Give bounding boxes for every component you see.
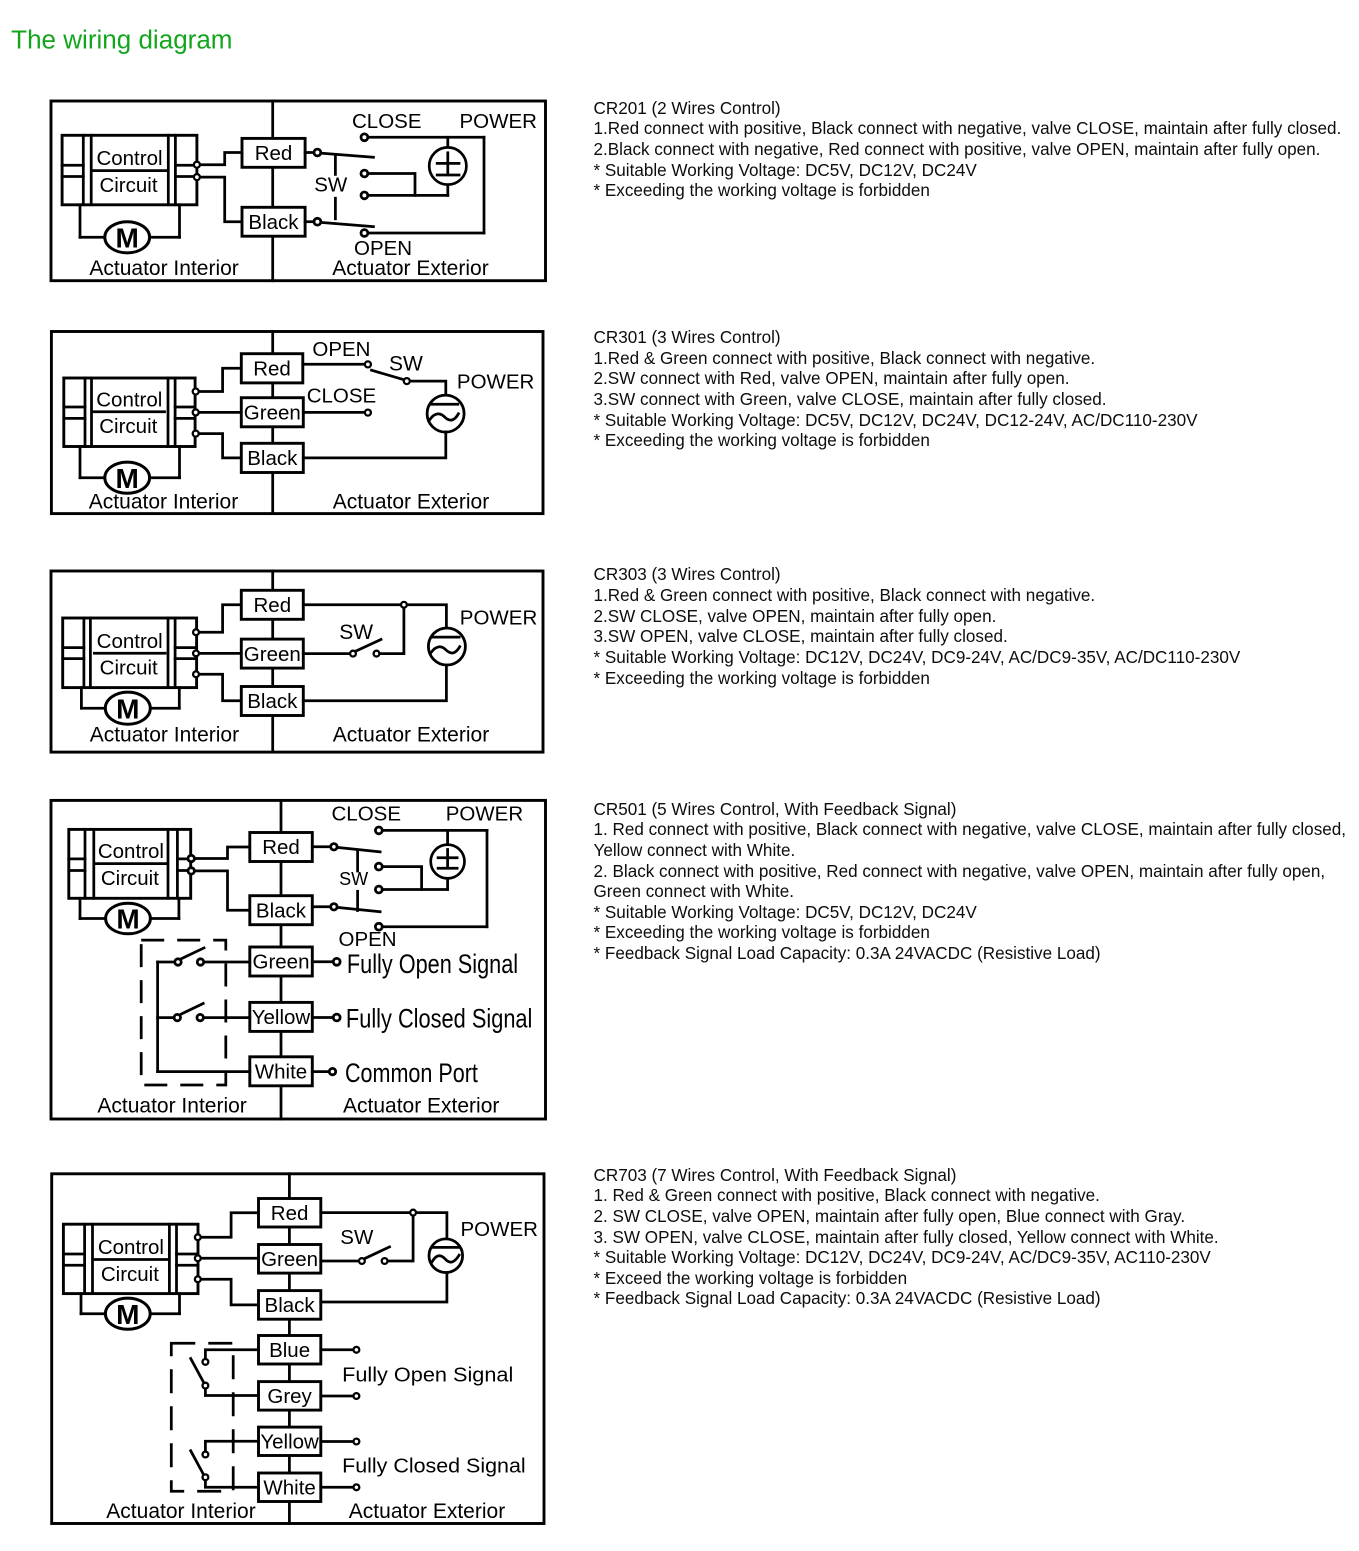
svg-text:Black: Black bbox=[265, 1294, 316, 1317]
svg-text:POWER: POWER bbox=[460, 607, 537, 630]
wire Red to OPEN contact bbox=[303, 363, 364, 366]
switch arm SW bbox=[365, 1247, 390, 1259]
wire pivot to source bbox=[411, 381, 446, 395]
wire: terminal to Black bbox=[197, 177, 242, 222]
interior/exterior divider wire bbox=[271, 332, 274, 514]
terminal circle 2 bbox=[194, 174, 200, 180]
wire: terminal to Red bbox=[198, 1213, 259, 1238]
svg-text:SW: SW bbox=[389, 353, 423, 376]
wire CLOSE to right rail bbox=[383, 829, 487, 832]
Red wire box bbox=[259, 1199, 321, 1228]
feedback dashed enclosure bbox=[171, 1343, 233, 1491]
switch right contact bbox=[382, 1258, 388, 1264]
terminal circle 1 bbox=[193, 629, 199, 635]
AC source PS3 bbox=[428, 628, 465, 665]
svg-text:Yellow: Yellow bbox=[260, 1431, 319, 1454]
svg-text:POWER: POWER bbox=[457, 370, 534, 393]
svg-text:Fully Closed Signal: Fully Closed Signal bbox=[346, 1004, 533, 1034]
Black wire box bbox=[250, 896, 312, 925]
wire junction down to switch bbox=[380, 608, 404, 653]
svg-text:Actuator Interior: Actuator Interior bbox=[89, 257, 238, 280]
wire: terminal to Green bbox=[195, 411, 241, 414]
contact mid1 bbox=[375, 863, 382, 870]
feedback switch S4 (fully closed) bbox=[191, 1441, 259, 1487]
contact mid2 bbox=[375, 886, 382, 893]
svg-text:Black: Black bbox=[256, 899, 307, 922]
enclosure frame CR303 bbox=[51, 571, 543, 752]
wire stub Yellow signal bbox=[321, 1440, 353, 1443]
Yellow wire box bbox=[250, 1002, 312, 1031]
switch left contact bbox=[359, 1258, 365, 1264]
svg-text:Circuit: Circuit bbox=[101, 867, 159, 890]
svg-text:Actuator Exterior: Actuator Exterior bbox=[349, 1500, 505, 1523]
enclosure frame CR501 bbox=[51, 800, 546, 1119]
feedback switch S2 (fully closed) bbox=[158, 1004, 250, 1021]
control circuit block U1 bbox=[62, 135, 197, 205]
wire: terminal to Red bbox=[196, 605, 241, 633]
wire: terminal to Red bbox=[195, 368, 241, 391]
node Grey signal bbox=[354, 1393, 360, 1399]
svg-text:Actuator Interior: Actuator Interior bbox=[106, 1500, 255, 1523]
svg-text:M: M bbox=[116, 1299, 139, 1330]
contact at Red bbox=[331, 844, 337, 850]
control circuit block U5 bbox=[63, 1224, 198, 1293]
node OPEN terminal bbox=[361, 230, 368, 237]
svg-text:Blue: Blue bbox=[269, 1339, 310, 1362]
node common port bbox=[329, 1068, 335, 1074]
Black wire box bbox=[242, 207, 305, 236]
contact at Red bbox=[314, 149, 321, 156]
terminal circle 2 bbox=[188, 868, 194, 874]
svg-text:Green: Green bbox=[244, 643, 301, 666]
wire stub Grey signal bbox=[321, 1395, 353, 1398]
Red wire box bbox=[241, 354, 302, 383]
svg-text:Control: Control bbox=[96, 147, 162, 170]
wire CLOSE to right rail bbox=[368, 136, 484, 139]
wire: terminal to Red bbox=[197, 153, 242, 165]
interior/exterior divider wire bbox=[271, 571, 274, 752]
node CLOSE terminal bbox=[361, 134, 368, 141]
right rail wire bbox=[483, 137, 486, 233]
enclosure frame CR201 bbox=[51, 101, 546, 281]
Red wire box bbox=[250, 833, 312, 862]
svg-text:Common Port: Common Port bbox=[345, 1058, 478, 1088]
svg-text:Actuator Exterior: Actuator Exterior bbox=[332, 257, 488, 280]
svg-text:Actuator Exterior: Actuator Exterior bbox=[333, 724, 489, 747]
svg-text:M: M bbox=[116, 223, 139, 254]
wire stub Red to contact bbox=[305, 151, 314, 154]
svg-text:Fully Open Signal: Fully Open Signal bbox=[347, 949, 518, 979]
Green wire box bbox=[259, 1245, 321, 1274]
White wire box bbox=[250, 1057, 312, 1086]
White wire box bbox=[259, 1473, 321, 1502]
Blue wire box bbox=[259, 1336, 321, 1365]
svg-text:POWER: POWER bbox=[460, 110, 537, 133]
svg-text:Actuator Exterior: Actuator Exterior bbox=[343, 1095, 499, 1118]
svg-text:OPEN: OPEN bbox=[312, 338, 370, 361]
motor M2 bbox=[80, 447, 180, 494]
motor M3 bbox=[81, 688, 179, 725]
control circuit block U3 bbox=[63, 618, 197, 688]
Green wire box bbox=[241, 639, 303, 668]
svg-text:Circuit: Circuit bbox=[100, 657, 158, 680]
wire: terminal to Black bbox=[191, 871, 250, 910]
Red wire box bbox=[242, 138, 305, 167]
Red wire box bbox=[241, 590, 303, 619]
battery source PS4 bbox=[431, 830, 465, 889]
svg-text:Fully Closed Signal: Fully Closed Signal bbox=[342, 1455, 526, 1478]
terminal circle 3 bbox=[193, 431, 199, 437]
wire: terminal to Black bbox=[196, 674, 241, 701]
node OPEN contact bbox=[365, 361, 371, 367]
node fully open signal bbox=[333, 958, 340, 965]
svg-text:SW: SW bbox=[340, 1226, 374, 1249]
wire: terminal to Green bbox=[196, 652, 241, 655]
feedback common vertical wire bbox=[156, 962, 159, 1072]
svg-text:White: White bbox=[255, 1061, 307, 1084]
control circuit block U2 bbox=[64, 378, 195, 447]
svg-text:SW: SW bbox=[314, 174, 348, 197]
wire Black to source bbox=[321, 1273, 447, 1303]
svg-text:OPEN: OPEN bbox=[339, 928, 397, 951]
Grey wire box bbox=[259, 1382, 321, 1411]
wire Green to switch bbox=[303, 652, 349, 655]
svg-text:OPEN: OPEN bbox=[354, 237, 412, 260]
switch linkage bbox=[334, 155, 337, 219]
interior/exterior divider wire bbox=[271, 101, 274, 281]
node Yellow signal bbox=[354, 1439, 360, 1445]
terminal circle 3 bbox=[193, 671, 199, 677]
wire Red to source (top rail) bbox=[321, 1213, 447, 1239]
terminal circle 2 bbox=[193, 409, 199, 415]
switch arm (Red pole) bbox=[338, 848, 380, 852]
wire white common bbox=[158, 1070, 250, 1073]
svg-text:Red: Red bbox=[253, 594, 291, 617]
node White signal bbox=[354, 1484, 360, 1490]
wire stub Blue signal bbox=[321, 1348, 353, 1351]
terminal circle 3 bbox=[195, 1276, 201, 1282]
interior/exterior divider wire bbox=[288, 1174, 291, 1524]
wire: terminal to Black bbox=[195, 434, 241, 458]
svg-text:Circuit: Circuit bbox=[99, 415, 157, 438]
contact mid1 bbox=[361, 170, 368, 177]
AC source PS5 bbox=[429, 1239, 463, 1273]
svg-text:White: White bbox=[263, 1476, 315, 1499]
svg-text:Control: Control bbox=[97, 630, 163, 653]
terminal circle 1 bbox=[195, 1234, 201, 1240]
wire OPEN to right rail bbox=[368, 232, 484, 235]
svg-text:Black: Black bbox=[247, 447, 298, 470]
enclosure frame CR703 bbox=[52, 1174, 544, 1524]
switch left contact bbox=[350, 651, 356, 657]
terminal circle 1 bbox=[188, 855, 194, 861]
svg-text:Green: Green bbox=[261, 1248, 318, 1271]
switch arm SW bbox=[356, 640, 381, 652]
motor M1 bbox=[80, 205, 180, 254]
svg-text:CLOSE: CLOSE bbox=[307, 384, 377, 407]
contact at Black bbox=[331, 904, 337, 910]
wire Black to source bbox=[303, 665, 446, 701]
wire junction down to switch bbox=[388, 1216, 413, 1261]
contact mid2 bbox=[361, 192, 368, 199]
feedback switch S1 (fully open) bbox=[158, 948, 250, 965]
wire mid1 jog bbox=[383, 867, 422, 890]
switch arm (Red pole) bbox=[322, 153, 374, 157]
svg-text:Red: Red bbox=[253, 358, 291, 381]
svg-text:Circuit: Circuit bbox=[99, 174, 157, 197]
wire stub Red to contact bbox=[312, 845, 330, 848]
svg-text:Fully Open Signal: Fully Open Signal bbox=[342, 1364, 513, 1387]
wire mid1 jog bbox=[368, 174, 415, 196]
wire stub White signal bbox=[321, 1486, 353, 1489]
wire Green to switch bbox=[321, 1260, 359, 1263]
switch arm (Black pole) bbox=[322, 223, 374, 227]
wire stub White signal bbox=[312, 1070, 329, 1073]
wire stub Green signal bbox=[312, 960, 332, 963]
svg-text:Actuator Exterior: Actuator Exterior bbox=[333, 491, 489, 514]
svg-text:Green: Green bbox=[253, 951, 310, 974]
wire Red to source (top rail) bbox=[303, 605, 446, 628]
svg-text:Green: Green bbox=[244, 402, 301, 425]
svg-text:Control: Control bbox=[96, 388, 162, 411]
terminal circle 2 bbox=[193, 651, 199, 657]
motor M5 bbox=[81, 1294, 180, 1330]
wire mid2 to source bbox=[383, 888, 448, 891]
svg-text:Yellow: Yellow bbox=[252, 1006, 311, 1029]
wire: terminal to Red bbox=[191, 847, 250, 859]
svg-text:POWER: POWER bbox=[461, 1218, 538, 1241]
wire Green to CLOSE contact bbox=[303, 411, 364, 414]
wire: terminal to Green bbox=[198, 1257, 259, 1260]
motor M4 bbox=[80, 898, 179, 934]
Black wire box bbox=[241, 443, 303, 472]
svg-text:The wiring diagram: The wiring diagram bbox=[11, 27, 232, 55]
contact at Black bbox=[314, 218, 321, 225]
junction node on top rail bbox=[401, 602, 407, 608]
AC source PS2 bbox=[427, 395, 464, 432]
terminal circle 1 bbox=[193, 389, 199, 395]
wire stub Black to contact bbox=[305, 220, 314, 223]
svg-text:CLOSE: CLOSE bbox=[332, 803, 402, 826]
switch pivot node bbox=[404, 378, 410, 384]
control circuit block U4 bbox=[69, 829, 191, 898]
svg-text:Black: Black bbox=[248, 211, 299, 234]
Yellow wire box bbox=[259, 1427, 321, 1455]
svg-text:Red: Red bbox=[262, 836, 300, 859]
svg-text:Grey: Grey bbox=[267, 1385, 312, 1408]
node Blue signal bbox=[354, 1347, 360, 1353]
wire stub Black to contact bbox=[312, 905, 330, 908]
svg-text:Black: Black bbox=[247, 690, 298, 713]
wire stub Yellow signal bbox=[312, 1016, 332, 1019]
svg-text:M: M bbox=[116, 904, 139, 935]
svg-text:Circuit: Circuit bbox=[101, 1263, 159, 1286]
svg-text:Actuator Interior: Actuator Interior bbox=[89, 491, 238, 514]
right rail wire bbox=[486, 830, 489, 926]
svg-text:SW: SW bbox=[339, 621, 373, 644]
svg-text:POWER: POWER bbox=[446, 803, 523, 826]
node CLOSE contact bbox=[365, 410, 371, 416]
svg-text:Red: Red bbox=[271, 1202, 309, 1225]
feedback dashed enclosure bbox=[141, 940, 226, 1085]
svg-text:Control: Control bbox=[98, 840, 164, 863]
Black wire box bbox=[241, 687, 303, 716]
node CLOSE terminal bbox=[375, 827, 382, 834]
wire Black to source bbox=[303, 432, 446, 458]
wire OPEN to right rail bbox=[383, 925, 487, 928]
terminal circle 2 bbox=[195, 1255, 201, 1261]
svg-text:M: M bbox=[116, 463, 139, 494]
interior/exterior divider wire bbox=[280, 800, 283, 1119]
enclosure frame CR301 bbox=[51, 332, 543, 514]
junction node on top rail bbox=[410, 1210, 416, 1216]
wire: terminal to Black bbox=[198, 1279, 259, 1305]
switch right contact bbox=[374, 651, 380, 657]
Green wire box bbox=[241, 398, 303, 427]
svg-text:SW: SW bbox=[339, 869, 368, 889]
wire mid2 to source bbox=[368, 194, 448, 197]
svg-text:Actuator Interior: Actuator Interior bbox=[90, 724, 239, 747]
svg-text:Actuator Interior: Actuator Interior bbox=[97, 1095, 246, 1118]
node OPEN terminal bbox=[375, 923, 382, 930]
feedback switch S3 (fully open) bbox=[191, 1350, 259, 1396]
switch arm SW bbox=[372, 370, 404, 379]
switch linkage bbox=[356, 852, 359, 911]
node fully closed signal bbox=[333, 1014, 340, 1021]
svg-text:CLOSE: CLOSE bbox=[352, 110, 422, 133]
Green wire box bbox=[250, 947, 312, 976]
svg-text:Red: Red bbox=[255, 142, 293, 165]
svg-text:M: M bbox=[116, 693, 139, 724]
battery source PS1 bbox=[429, 137, 466, 195]
terminal circle 1 bbox=[194, 162, 200, 168]
Black wire box bbox=[259, 1291, 321, 1320]
switch arm (Black pole) bbox=[338, 908, 380, 912]
svg-text:Control: Control bbox=[98, 1236, 164, 1259]
